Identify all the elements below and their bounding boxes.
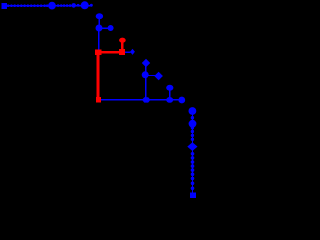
node R (circle, top of V) <box>189 107 197 115</box>
L1 small dot <box>77 4 80 7</box>
node G (red circle) <box>119 38 126 43</box>
wire N (long horizontal) <box>101 99 181 101</box>
L1 small step dots <box>7 4 49 7</box>
wire K-M (trunk down) <box>145 75 147 100</box>
node P (circle, end of N) <box>178 97 185 104</box>
node L1b (medium dot on L1) <box>71 3 76 8</box>
node J (blue diamond) <box>142 59 150 67</box>
node S (circle on V) <box>189 120 197 128</box>
L1 small step dots (middle run) <box>57 4 72 7</box>
wire K-L (branch right) <box>146 74 156 76</box>
wire C-D (branch right) <box>99 27 109 29</box>
node L (diamond) <box>154 72 163 80</box>
node F (red square) <box>119 49 125 55</box>
node L1a (big dot on L1) <box>48 2 56 10</box>
node U (blue square, bottom end) <box>190 193 196 199</box>
wire O-Q (stem up) <box>169 88 171 100</box>
wire F-E (red horizontal) <box>98 51 120 54</box>
node L1c (big dot near end of L1) <box>81 1 89 9</box>
wire F-I (blue stub right) <box>125 51 131 53</box>
wire J-K (vertical stem) <box>145 63 147 75</box>
wire L1 (top horizontal dotted line) <box>6 5 92 7</box>
node H (red square) <box>96 97 101 102</box>
node I (blue diamond) <box>130 49 135 55</box>
node Q (circle) <box>166 85 173 91</box>
node O (circle junction on N) <box>166 97 173 103</box>
node T (blue diamond on V) <box>187 142 197 151</box>
node C (circle junction) <box>96 25 103 32</box>
node E (red square) <box>95 50 101 56</box>
wire G-F (red vertical stem) <box>121 41 123 50</box>
V small step dots (lower run) <box>191 152 195 190</box>
node B (circle) <box>96 13 103 19</box>
node A (blue square, top-left) <box>2 3 7 9</box>
wire B-C (vertical stem) <box>98 16 100 28</box>
node M (blue wide hexagon junction) <box>142 97 150 102</box>
wire V (right vertical dotted line) <box>191 111 193 195</box>
V small step dots (upper run) <box>191 126 194 141</box>
node D (circle) <box>108 25 114 31</box>
L1 end small dot <box>90 4 93 7</box>
wire E-H (red vertical) <box>96 55 99 98</box>
node K (circle junction) <box>142 71 149 78</box>
wire C-E (trunk down to red square) <box>98 28 100 50</box>
V small dot <box>191 116 194 119</box>
